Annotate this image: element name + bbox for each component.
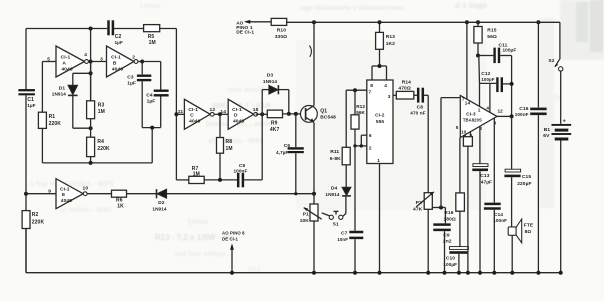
- svg-text:1: 1: [377, 158, 380, 164]
- node D3/R9 right junction: [287, 112, 291, 116]
- node bottom rail junction P1: [312, 271, 316, 275]
- svg-text:DE CI-1: DE CI-1: [222, 236, 238, 241]
- wire C7 riser: [354, 146, 356, 231]
- wire A output to B input: [88, 61, 106, 63]
- wire D4 to R11: [345, 165, 347, 188]
- svg-text:D4: D4: [331, 186, 338, 192]
- wire D3 branch left riser: [262, 90, 269, 115]
- svg-text:100µF: 100µF: [503, 48, 517, 53]
- amplifier U3 CI-3 TBA820S: [460, 96, 497, 138]
- wire R7 left elbow: [176, 179, 188, 181]
- pin label 2 (B output): [132, 55, 135, 61]
- svg-text:v bar vbe t veites - WP1: v bar vbe t veites - WP1: [30, 179, 114, 188]
- battery B1 6V: [543, 118, 571, 140]
- svg-text:R2: R2: [32, 212, 39, 218]
- resistor R5: [144, 25, 160, 47]
- inverter U1D CI-1 D 4049: [228, 99, 257, 129]
- svg-text:S2: S2: [548, 58, 554, 64]
- wire D1 bottom to node: [73, 95, 91, 128]
- diode D1 1N914: [52, 85, 78, 96]
- node R4 bottom junction: [89, 161, 93, 165]
- capacitor C8: [410, 88, 425, 116]
- pin label 14: [220, 109, 226, 115]
- svg-text:CI-1: CI-1: [188, 107, 198, 113]
- svg-text:1µF: 1µF: [147, 98, 156, 104]
- wire node to pin1: [478, 56, 481, 107]
- svg-text:CI-1: CI-1: [111, 55, 121, 61]
- svg-text:R9: R9: [271, 120, 278, 126]
- wire R14 to C8: [414, 94, 417, 96]
- node pin6 junction: [360, 144, 363, 147]
- arrow to pin 8 CI-1: [230, 243, 234, 273]
- speaker FTE 8ohm: [508, 219, 534, 273]
- svg-text:4,7µF: 4,7µF: [276, 150, 289, 155]
- diode D2 1N914: [152, 189, 166, 211]
- node A output: [89, 60, 93, 64]
- pin label 12: [498, 109, 504, 114]
- svg-text:1N914: 1N914: [52, 92, 66, 97]
- wire P2 wiper to pin7 node: [432, 207, 445, 209]
- wire R5 feedback vertical x=176.4: [175, 29, 177, 181]
- svg-text:1: 1: [478, 107, 481, 112]
- wire R2 bottom to bottom rail: [25, 229, 27, 273]
- wire D output to R9: [256, 113, 268, 115]
- svg-text:R10: R10: [277, 28, 286, 34]
- pin label 2: [369, 145, 372, 151]
- wire R15 from rail: [477, 22, 479, 26]
- resistor R1: [38, 112, 61, 128]
- node D output junction: [260, 112, 264, 116]
- svg-text:330Ω: 330Ω: [275, 34, 287, 40]
- capacitor C11: [493, 43, 516, 64]
- node bottom rail junction C13: [478, 271, 482, 275]
- pin label 8: [470, 133, 473, 138]
- svg-text:10K: 10K: [300, 218, 310, 224]
- svg-text:470Ω: 470Ω: [398, 85, 410, 91]
- capacitor C13 (electrolytic): [472, 164, 492, 273]
- node R3/R4/D1 junction: [89, 126, 93, 130]
- svg-text:R6: R6: [116, 197, 123, 203]
- svg-text:4049: 4049: [61, 66, 72, 72]
- potentiometer P1 10K: [300, 194, 322, 273]
- svg-text:47µF: 47µF: [481, 179, 492, 184]
- wire R7 to C5: [204, 179, 237, 181]
- wire A output vertical x=90.6: [90, 29, 92, 101]
- pin label 12: [210, 107, 216, 113]
- capacitor C1: [18, 89, 35, 108]
- wire left vertical bus x=26 (top corner to E input to R2): [25, 29, 27, 211]
- pin label 10: [461, 129, 467, 134]
- svg-text:4: 4: [384, 83, 387, 89]
- pin label 2: [480, 126, 483, 131]
- wire R11 top to pin7 wire: [345, 90, 347, 147]
- wire C3/C4 join: [142, 128, 161, 163]
- svg-text:4049: 4049: [189, 119, 200, 125]
- node wiper junction: [439, 206, 443, 210]
- wire pin3 to C14: [493, 118, 495, 203]
- pin label 4: [384, 83, 387, 89]
- potentiometer P2 47K: [413, 192, 434, 273]
- wire 555 pin2 left: [355, 145, 367, 147]
- node B output: [140, 60, 144, 64]
- wire R6 to D2: [127, 193, 158, 195]
- node C12 riser junction: [510, 82, 514, 86]
- svg-text:s) seiles - W81: s) seiles - W81: [60, 205, 112, 214]
- svg-text:2n2: 2n2: [443, 239, 452, 245]
- transistor Q1 BC548: [301, 106, 337, 123]
- resistor R6: [112, 190, 127, 209]
- svg-text:1N914: 1N914: [152, 206, 166, 211]
- resistor R13: [376, 32, 396, 49]
- wire E output to R6: [87, 193, 112, 195]
- pin label 6: [369, 133, 372, 139]
- svg-text:220K: 220K: [97, 146, 110, 152]
- node R13 rail junction: [378, 20, 382, 24]
- wire node rail y=162.9: [42, 162, 152, 164]
- svg-text:C4: C4: [146, 92, 153, 98]
- svg-text:C3: C3: [127, 74, 134, 80]
- IC U2 CI-2 555: [367, 80, 393, 164]
- svg-text:+: +: [563, 118, 566, 124]
- svg-text:1M: 1M: [149, 40, 156, 46]
- wire R1 bottom to node rail y=162.9: [41, 128, 43, 163]
- svg-text:1µF: 1µF: [115, 40, 123, 45]
- pin label 5: [456, 125, 459, 130]
- wire top rail y=22.3: [287, 21, 560, 23]
- svg-text:8Ω: 8Ω: [525, 229, 532, 235]
- wire A input (pin5) with step down to R1: [42, 62, 56, 113]
- pin label 15: [253, 107, 259, 113]
- svg-text:220K: 220K: [32, 219, 45, 225]
- pin label 7: [462, 97, 465, 102]
- resistor R9: [267, 110, 282, 133]
- svg-text:1µF: 1µF: [127, 80, 136, 86]
- resistor R12: [351, 104, 366, 129]
- svg-text:R11: R11: [330, 149, 339, 155]
- svg-text:(sinsi: (sinsi: [188, 217, 208, 226]
- svg-text:nsi lser seilup...: nsi lser seilup...: [175, 249, 231, 258]
- svg-text:5: 5: [456, 125, 459, 130]
- svg-text:8: 8: [370, 83, 373, 89]
- svg-text:R3: R3: [98, 102, 105, 108]
- node R8 bottom junction: [218, 178, 222, 182]
- node arrow junction: [230, 271, 234, 275]
- wire 555 pin1 to bottom rail: [379, 164, 381, 273]
- svg-text:B1: B1: [544, 127, 551, 133]
- svg-text:12: 12: [498, 109, 504, 114]
- wire output to C15: [511, 116, 513, 169]
- pin label 7: [368, 90, 371, 96]
- inverter U1B CI-1 B 4049: [107, 46, 138, 77]
- node pins8-4 junction: [378, 64, 382, 68]
- pin label 14: [465, 101, 471, 106]
- node R15/C11 junction: [476, 54, 480, 58]
- svg-text:100nF: 100nF: [515, 112, 529, 117]
- resistor R7: [189, 166, 204, 184]
- svg-text:P1: P1: [303, 212, 309, 218]
- wire C11 right to riser: [500, 56, 511, 117]
- svg-text:100nF: 100nF: [234, 168, 248, 173]
- resistor R10: [271, 18, 287, 40]
- wire A output down to R3: [90, 62, 92, 101]
- resistor R3: [87, 101, 105, 119]
- wire pin5 down to R16: [459, 138, 461, 193]
- wire 555 pin3 to R14: [393, 94, 396, 96]
- svg-text:1K2: 1K2: [386, 41, 395, 47]
- wire C output to D input: [214, 113, 228, 115]
- svg-text:14: 14: [220, 109, 226, 115]
- node C6 bottom junction: [294, 192, 297, 195]
- node emitter/P1 junction: [312, 192, 316, 196]
- svg-text:DE CI-1: DE CI-1: [236, 30, 254, 36]
- svg-text:AO: AO: [236, 20, 243, 25]
- wire C12 left: [480, 82, 497, 84]
- wire S2 to battery: [560, 71, 562, 124]
- label AO PINO 8 DE CI-1: [222, 231, 245, 242]
- pin label 5 (A input): [47, 57, 50, 63]
- svg-text:6: 6: [369, 133, 372, 139]
- svg-text:15: 15: [253, 107, 259, 113]
- node R15 rail junction: [476, 20, 480, 24]
- svg-text:R12: R12: [356, 104, 365, 109]
- svg-text:56K: 56K: [356, 110, 365, 115]
- wire Q1 collector to top rail: [313, 22, 315, 105]
- svg-text:CI-2: CI-2: [375, 112, 385, 118]
- svg-text:BC548: BC548: [320, 115, 336, 121]
- capacitor C14: [484, 203, 507, 273]
- wire D1 branch top: [73, 73, 91, 85]
- wire R8 bottom: [219, 153, 221, 180]
- svg-text:9: 9: [48, 189, 51, 195]
- node C6 top junction: [294, 112, 298, 116]
- capacitor C10 (electrolytic): [443, 247, 468, 273]
- svg-text:C7: C7: [341, 231, 348, 237]
- svg-text:6-8K: 6-8K: [330, 156, 341, 162]
- capacitor C3: [127, 62, 151, 128]
- svg-text:P2: P2: [416, 200, 422, 206]
- wire bottom rail y=272.7: [26, 229, 561, 273]
- svg-text:C: C: [190, 113, 194, 119]
- wire pin14 from top rail: [466, 22, 468, 99]
- wire Q1 emitter down: [313, 122, 315, 193]
- inverter U1C CI-1 C 4049: [184, 99, 214, 129]
- svg-text:11: 11: [178, 109, 184, 115]
- node bottom rail junction C14: [492, 271, 496, 275]
- capacitor C7: [337, 231, 363, 273]
- wire C8 to P2: [424, 95, 428, 192]
- svg-text:14: 14: [465, 101, 471, 106]
- switch S2: [548, 58, 563, 71]
- wire C12 right: [503, 83, 512, 85]
- node bottom rail junction P2: [426, 271, 430, 275]
- resistor R8: [217, 138, 233, 154]
- wire R12 top: [354, 90, 356, 115]
- svg-text:R1: R1: [49, 114, 56, 120]
- node C input junction: [174, 112, 178, 116]
- pin label 4 (A output): [84, 52, 87, 58]
- svg-text:1µF: 1µF: [27, 103, 35, 108]
- svg-text:C8: C8: [417, 104, 424, 110]
- svg-text:ssm mssW: ssm mssW: [228, 87, 265, 94]
- wire S1 to D4: [343, 196, 346, 216]
- wire R13 from top rail: [379, 22, 381, 32]
- wire top rail to S2: [559, 22, 561, 59]
- svg-text:d s ilage: d s ilage: [455, 1, 488, 10]
- switch S1: [322, 211, 343, 227]
- svg-text:10: 10: [461, 129, 467, 134]
- svg-text:470 nF: 470 nF: [410, 110, 425, 115]
- capacitor C9: [433, 223, 452, 272]
- svg-text:220K: 220K: [49, 121, 62, 127]
- capacitor C4: [146, 90, 168, 128]
- svg-text:3: 3: [388, 94, 391, 100]
- node bottom rail junction C16: [536, 271, 540, 275]
- print artifact parenthesis: [310, 46, 312, 57]
- svg-text:D2: D2: [158, 200, 165, 206]
- node E input junction: [24, 192, 28, 196]
- svg-text:AO PINO 8: AO PINO 8: [222, 231, 245, 236]
- resistor R15: [474, 27, 497, 44]
- wire R12 bottom: [354, 129, 356, 146]
- wire B output to C3/C4 branch: [138, 62, 161, 90]
- svg-text:CI-1: CI-1: [60, 186, 70, 192]
- node bottom rail junction C7: [353, 271, 357, 275]
- node output junction: [510, 114, 514, 118]
- svg-text:4K7: 4K7: [270, 127, 280, 133]
- svg-text:R8: R8: [226, 139, 233, 145]
- capacitor C5: [234, 163, 248, 187]
- svg-text:R13: R13: [386, 34, 395, 40]
- svg-text:D: D: [234, 113, 238, 119]
- svg-text:C6: C6: [284, 143, 291, 149]
- wire C5 to D-output riser: [244, 114, 262, 180]
- svg-text:4049: 4049: [233, 119, 244, 125]
- wire battery to bottom rail: [560, 141, 562, 273]
- node R12 bottom junction: [353, 144, 356, 147]
- pin label 3: [388, 94, 391, 100]
- node bottom rail junction speaker: [510, 271, 514, 275]
- pin label 9: [48, 189, 51, 195]
- wire R8 vertical: [219, 114, 221, 137]
- wire C11 left: [478, 55, 493, 57]
- svg-text:C9: C9: [443, 233, 450, 239]
- wire amp output pin12: [497, 115, 512, 117]
- node D1 top junction: [89, 71, 93, 75]
- svg-text:100pF: 100pF: [481, 77, 494, 82]
- pin label 10: [83, 186, 89, 192]
- node C3/C4 junction: [150, 126, 154, 130]
- node bottom rail junction battery: [559, 271, 563, 275]
- svg-text:1M: 1M: [226, 146, 233, 152]
- inverter U1A CI-1 A 4049: [56, 46, 88, 77]
- node junction A-output to top rail: [89, 27, 93, 31]
- diode D3 1N914: [263, 72, 279, 94]
- wire C16 from top rail: [537, 22, 539, 107]
- svg-text:A: A: [62, 60, 66, 66]
- svg-text:D1: D1: [59, 85, 66, 91]
- arrow to pin 1 CI-1: [244, 20, 271, 24]
- svg-text:1K: 1K: [117, 204, 124, 210]
- svg-text:4: 4: [84, 52, 87, 58]
- wire D3 to right junction: [278, 90, 288, 114]
- svg-text:R16: R16: [444, 210, 453, 216]
- svg-text:FTE: FTE: [524, 222, 534, 228]
- resistor R11: [330, 147, 350, 165]
- resistor R16: [444, 193, 465, 222]
- svg-text:R4: R4: [97, 139, 104, 145]
- svg-text:555: 555: [376, 119, 385, 125]
- pin label 3: [494, 120, 497, 125]
- wire amp pin7 riser: [441, 98, 460, 208]
- wire 555 pin7 left: [346, 89, 367, 91]
- node bottom rail junction C10: [457, 271, 461, 275]
- svg-text:C15: C15: [522, 174, 531, 180]
- svg-text:D3: D3: [267, 72, 274, 78]
- svg-text:CI-1: CI-1: [61, 55, 71, 61]
- svg-text:1M: 1M: [98, 109, 105, 115]
- pin label 1: [478, 107, 481, 112]
- svg-text:3: 3: [100, 57, 103, 63]
- svg-text:1M: 1M: [193, 171, 200, 177]
- resistor R4: [87, 137, 110, 156]
- svg-text:2: 2: [132, 55, 135, 61]
- node R8 top junction: [218, 112, 222, 116]
- svg-text:TBA820S: TBA820S: [463, 118, 482, 123]
- svg-text:12: 12: [210, 107, 216, 113]
- node collector rail junction: [312, 20, 316, 24]
- svg-text:220µF: 220µF: [517, 181, 531, 187]
- capacitor C15 (electrolytic): [504, 169, 531, 227]
- pin label 11: [178, 109, 184, 115]
- capacitor C16: [515, 106, 547, 273]
- svg-text:4: 4: [486, 105, 489, 110]
- wire R9 to Q1 base: [283, 113, 306, 115]
- svg-text:7: 7: [368, 90, 371, 96]
- wire top-left rail y=28.5: [26, 28, 176, 30]
- wire pin4 riser: [489, 84, 491, 113]
- svg-text:1N914: 1N914: [263, 79, 277, 84]
- svg-text:Q1: Q1: [320, 108, 327, 114]
- node R12 top junction: [353, 88, 357, 92]
- svg-text:R14: R14: [402, 79, 411, 85]
- node C16 rail junction: [536, 20, 540, 24]
- svg-text:10nF: 10nF: [337, 237, 348, 242]
- pin label 8: [370, 83, 373, 89]
- svg-text:B: B: [113, 60, 117, 66]
- wire pin2 to C13: [479, 126, 481, 163]
- svg-text:C10: C10: [446, 256, 455, 262]
- node pin14 rail junction: [465, 20, 469, 24]
- svg-text:uge ebslivsbno v obbashrinses: uge ebslivsbno v obbashrinses: [300, 5, 404, 12]
- svg-text:S1: S1: [333, 222, 339, 228]
- label AO PINO 1 DE CI-1: [236, 20, 254, 35]
- pins 10/8 decoupling box: [463, 132, 472, 273]
- svg-text:CI-1: CI-1: [232, 107, 242, 113]
- pin label 1: [377, 158, 380, 164]
- diode D4 1N914: [325, 186, 351, 198]
- wire R4 bottom to node rail: [90, 157, 92, 163]
- pin label 4: [486, 105, 489, 110]
- wire R16 to C10: [459, 211, 461, 246]
- svg-text:C14: C14: [494, 212, 503, 218]
- svg-text:t bnss: t bnss: [140, 3, 161, 10]
- pin label 3 (B input): [100, 57, 103, 63]
- capacitor C2: [107, 20, 123, 45]
- resistor R14: [396, 79, 414, 99]
- svg-text:4049: 4049: [61, 198, 72, 204]
- svg-text:180Ω: 180Ω: [444, 216, 456, 222]
- svg-text:R15: R15: [487, 28, 496, 34]
